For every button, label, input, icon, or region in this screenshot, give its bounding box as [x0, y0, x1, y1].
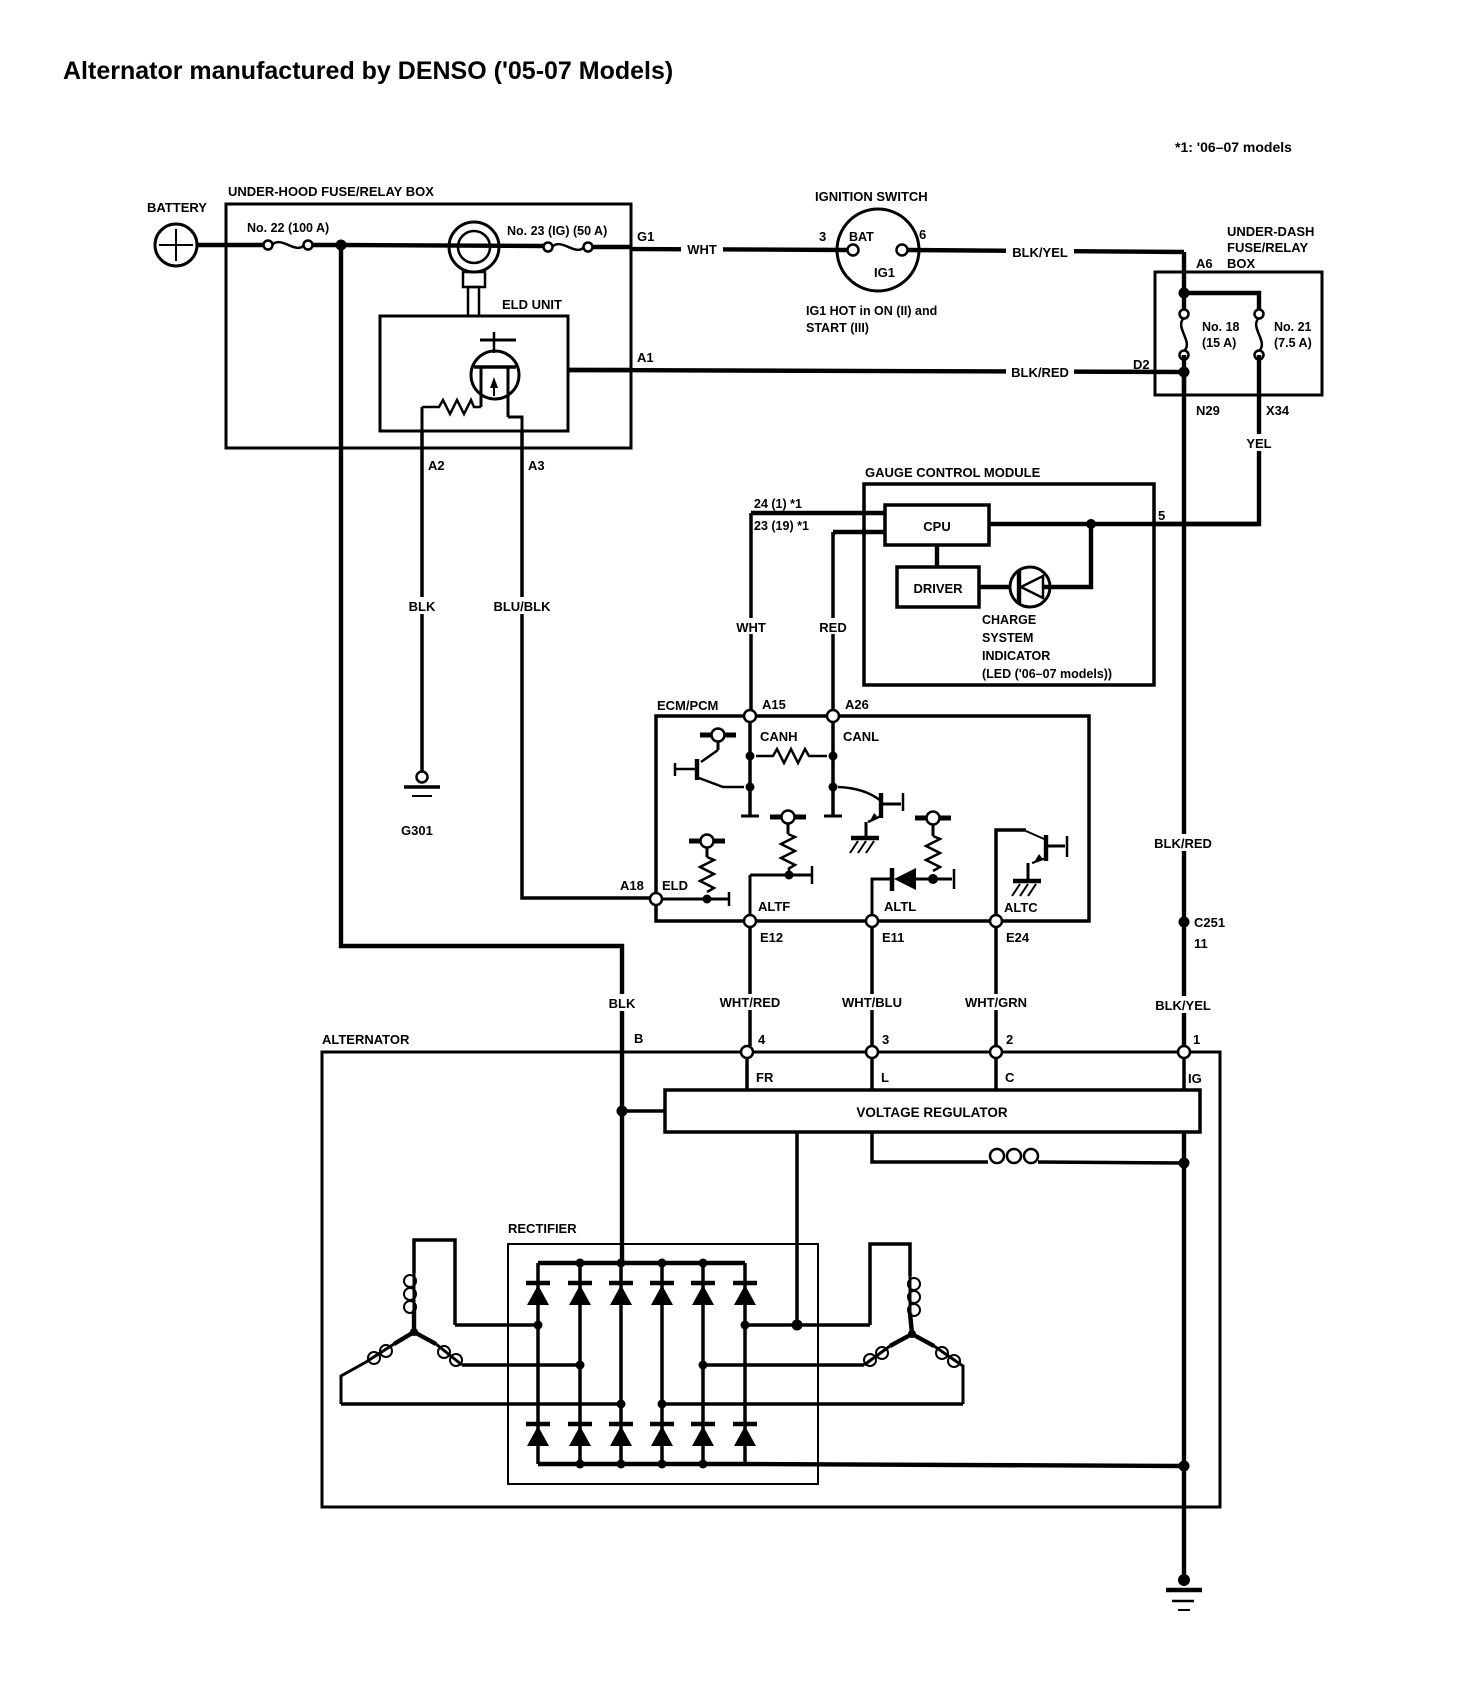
- svg-text:IG1: IG1: [874, 265, 895, 280]
- wire C to regulator: [994, 1058, 998, 1090]
- wire E24 to transistor Q3: [996, 830, 1026, 915]
- svg-text:A2: A2: [428, 458, 445, 473]
- junction dot A6 feed: [1179, 288, 1190, 299]
- junction row B col5: [699, 1361, 708, 1370]
- svg-text:G1: G1: [637, 229, 654, 244]
- wire fuse18 to D2 and down: [1182, 355, 1186, 395]
- junction CANH Q1 emitter: [746, 783, 755, 792]
- wire DRIVER to LED: [979, 585, 1010, 589]
- svg-text:5: 5: [1158, 508, 1165, 523]
- diode column 3: [609, 1263, 633, 1464]
- rectifier bottom bus: [538, 1462, 745, 1466]
- svg-text:ALTC: ALTC: [1004, 900, 1038, 915]
- svg-text:A3: A3: [528, 458, 545, 473]
- terminal E12: [744, 915, 756, 927]
- terminal E11: [866, 915, 878, 927]
- svg-text:E24: E24: [1006, 930, 1030, 945]
- diode column 2: [568, 1263, 592, 1464]
- alternator box: [322, 1052, 1220, 1507]
- svg-text:L: L: [881, 1070, 889, 1085]
- svg-text:WHT/RED: WHT/RED: [720, 995, 781, 1010]
- wire ELD input: [662, 898, 729, 901]
- svg-text:ELD: ELD: [662, 878, 688, 893]
- wire ALTF node: [750, 874, 812, 877]
- svg-text:BLK/YEL: BLK/YEL: [1155, 998, 1211, 1013]
- svg-text:SYSTEM: SYSTEM: [982, 631, 1033, 645]
- svg-text:(15 A): (15 A): [1202, 336, 1236, 350]
- junction CANL Q2 base: [829, 783, 838, 792]
- field coil L1: [990, 1149, 1184, 1163]
- junction dot ALTL: [928, 874, 938, 884]
- junction row C col4: [658, 1400, 667, 1409]
- wire BLK A2 to G301: [420, 431, 424, 772]
- svg-text:4: 4: [758, 1032, 766, 1047]
- phase row A right: [745, 1323, 870, 1327]
- svg-text:(LED ('06–07 models)): (LED ('06–07 models)): [982, 667, 1112, 681]
- junction row A col1: [534, 1321, 543, 1330]
- wire E11 to diode: [872, 879, 890, 915]
- battery symbol: [155, 224, 197, 266]
- junction bottom bus col3: [617, 1460, 626, 1469]
- svg-text:IG1 HOT in ON (II) and: IG1 HOT in ON (II) and: [806, 304, 937, 318]
- transistor Q3 ALTC: [1026, 831, 1067, 879]
- wire IG down from regulator: [1182, 1132, 1186, 1466]
- svg-text:Alternator manufactured by DEN: Alternator manufactured by DENSO ('05-07…: [63, 57, 673, 85]
- svg-text:A26: A26: [845, 697, 869, 712]
- svg-text:BATTERY: BATTERY: [147, 200, 207, 215]
- svg-text:No. 23 (IG) (50 A): No. 23 (IG) (50 A): [507, 224, 607, 238]
- ELD current sensor toroid: [449, 222, 499, 316]
- terminal 1: [1178, 1046, 1190, 1058]
- svg-text:YEL: YEL: [1246, 436, 1271, 451]
- ground Q3: [1012, 881, 1041, 896]
- diode column 5: [691, 1263, 715, 1464]
- junction bottom bus col2: [576, 1460, 585, 1469]
- svg-text:C: C: [1005, 1070, 1015, 1085]
- fuse No.21 (7.5 A): [1255, 310, 1264, 360]
- ignition switch: [837, 209, 919, 291]
- wire IG to regulator: [1182, 1058, 1186, 1090]
- junction dot LED branch: [1086, 519, 1096, 529]
- svg-text:1: 1: [1193, 1032, 1200, 1047]
- wire battery to fuse box: [197, 243, 264, 247]
- junction bottom bus col4: [658, 1460, 667, 1469]
- wire CPU pin 23(19): [833, 530, 885, 534]
- diode column 4: [650, 1263, 674, 1464]
- svg-text:FUSE/RELAY: FUSE/RELAY: [1227, 240, 1308, 255]
- wire down to under-dash box: [1182, 252, 1186, 316]
- resistor ALTL: [926, 836, 940, 871]
- wire CPU to DRIVER: [935, 545, 939, 567]
- resistor ALTF: [781, 834, 795, 869]
- svg-text:ALTL: ALTL: [884, 899, 916, 914]
- junction top bus col3 B wire: [617, 1259, 626, 1268]
- ELD unit box: [380, 316, 568, 431]
- junction row B col2: [576, 1361, 585, 1370]
- svg-text:N29: N29: [1196, 403, 1220, 418]
- phase row B right: [703, 1363, 864, 1367]
- wire YEL fuse21 to gauge pin 5: [1154, 355, 1259, 524]
- junction dot battery feed: [336, 240, 347, 251]
- svg-text:3: 3: [882, 1032, 889, 1047]
- wire WHT CPU to A15: [749, 513, 753, 712]
- supply stub ALTF: [770, 811, 806, 835]
- svg-text:3: 3: [819, 229, 826, 244]
- svg-text:RED: RED: [819, 620, 846, 635]
- diode ALTL D2: [892, 868, 954, 891]
- under-hood fuse/relay box: [226, 204, 631, 448]
- terminal 2: [990, 1046, 1002, 1058]
- svg-text:A1: A1: [637, 350, 654, 365]
- transistor Q1 CAN driver: [675, 729, 744, 788]
- wire BLK battery junction down-over to alternator B: [341, 245, 622, 1263]
- wire ALTF to E12: [749, 875, 752, 915]
- svg-text:RECTIFIER: RECTIFIER: [508, 1221, 577, 1236]
- svg-text:BLK/RED: BLK/RED: [1011, 365, 1069, 380]
- svg-text:(7.5 A): (7.5 A): [1274, 336, 1312, 350]
- wire WHT G1 to ignition switch: [631, 249, 848, 250]
- svg-text:BLK: BLK: [409, 599, 436, 614]
- svg-text:GAUGE CONTROL MODULE: GAUGE CONTROL MODULE: [865, 465, 1041, 480]
- svg-text:ELD UNIT: ELD UNIT: [502, 297, 562, 312]
- phase row C left: [341, 1402, 621, 1406]
- svg-text:WHT/BLU: WHT/BLU: [842, 995, 902, 1010]
- junction row A col6: [741, 1321, 750, 1330]
- wire CPU pin 24(1): [751, 511, 885, 515]
- phase row C right: [662, 1402, 963, 1406]
- wire FR to regulator: [745, 1058, 749, 1090]
- junction dot ALTF: [785, 871, 794, 880]
- phase row B left: [462, 1363, 580, 1367]
- wire ELD FET to A3: [508, 417, 522, 433]
- svg-text:WHT/GRN: WHT/GRN: [965, 995, 1027, 1010]
- svg-text:ALTF: ALTF: [758, 899, 790, 914]
- svg-text:ALTERNATOR: ALTERNATOR: [322, 1032, 410, 1047]
- wire B to regulator: [622, 1109, 665, 1113]
- rectifier top bus: [538, 1261, 745, 1265]
- junction top bus col5: [699, 1259, 708, 1268]
- CPU box U2: [885, 505, 989, 545]
- ground G301: [404, 772, 440, 797]
- svg-text:WHT: WHT: [687, 242, 717, 257]
- wire ELD resistor to A2: [421, 407, 424, 433]
- wire fuse22 to junction: [312, 243, 341, 247]
- wire bottom bus to IG ground run: [745, 1464, 1184, 1466]
- junction dot D2: [1179, 367, 1190, 378]
- fuse No.18 (15 A): [1180, 310, 1189, 360]
- fuse No.23 (IG)(50 A): [544, 243, 593, 252]
- svg-text:6: 6: [919, 227, 926, 242]
- rectifier box: [508, 1244, 818, 1484]
- junction bottom bus col5: [699, 1460, 708, 1469]
- junction CANL resistor: [829, 752, 838, 761]
- svg-text:B: B: [634, 1031, 643, 1046]
- wire L to regulator: [870, 1058, 874, 1090]
- wire regulator sense to rectifier bus A: [795, 1132, 799, 1325]
- left stator winding W1: [341, 1240, 462, 1404]
- chassis ground: [1166, 1574, 1202, 1610]
- wire WHT/RED E12 to alternator 4: [748, 927, 752, 1046]
- svg-text:ECM/PCM: ECM/PCM: [657, 698, 718, 713]
- svg-text:BAT: BAT: [849, 230, 874, 244]
- ECM/PCM box: [656, 716, 1089, 921]
- svg-text:A15: A15: [762, 697, 786, 712]
- svg-text:2: 2: [1006, 1032, 1013, 1047]
- terminal 3: [866, 1046, 878, 1058]
- diode column 6: [733, 1263, 757, 1464]
- svg-text:24 (1) *1: 24 (1) *1: [754, 497, 802, 511]
- terminal A26: [827, 710, 839, 722]
- wire regulator to field coil: [872, 1132, 988, 1162]
- transistor Q2 CAN driver: [838, 787, 903, 837]
- phase row A left: [455, 1323, 538, 1327]
- resistor ELD pull-up: [700, 857, 714, 892]
- wire WHT/BLU E11 to alternator 3: [870, 927, 874, 1046]
- svg-text:No. 18: No. 18: [1202, 320, 1240, 334]
- wire junction to fuse23 through ELD sensor: [341, 245, 544, 246]
- svg-text:E12: E12: [760, 930, 783, 945]
- svg-text:A18: A18: [620, 878, 644, 893]
- svg-text:23 (19) *1: 23 (19) *1: [754, 519, 809, 533]
- svg-text:BLU/BLK: BLU/BLK: [493, 599, 551, 614]
- connector C251 dot: [1179, 917, 1190, 928]
- wire BLK/YEL ignition to under-dash box: [908, 250, 1184, 252]
- svg-text:BLK/RED: BLK/RED: [1154, 836, 1212, 851]
- resistor ELD unit: [422, 400, 481, 414]
- wire fuse23 to G1: [592, 245, 631, 249]
- wire BLK/RED A1 to D2: [568, 370, 1184, 372]
- svg-text:IGNITION SWITCH: IGNITION SWITCH: [815, 189, 928, 204]
- svg-text:C251: C251: [1194, 915, 1225, 930]
- svg-text:VOLTAGE REGULATOR: VOLTAGE REGULATOR: [856, 1105, 1007, 1120]
- svg-text:A6: A6: [1196, 256, 1213, 271]
- wire branch to fuse No.21: [1184, 293, 1259, 314]
- svg-text:11: 11: [1194, 936, 1208, 951]
- svg-text:G301: G301: [401, 823, 433, 838]
- svg-text:FR: FR: [756, 1070, 774, 1085]
- svg-text:BLK/YEL: BLK/YEL: [1012, 245, 1068, 260]
- wire A1 from ELD box: [568, 368, 631, 372]
- LED charge system indicator D1: [1010, 567, 1050, 607]
- terminal 4: [741, 1046, 753, 1058]
- DRIVER box U3: [897, 567, 979, 607]
- wire CANH internal: [748, 722, 752, 816]
- wire CPU to pin 5: [989, 522, 1259, 526]
- junction row A regulator sense: [792, 1320, 803, 1331]
- voltage regulator box: [665, 1090, 1200, 1132]
- svg-text:INDICATOR: INDICATOR: [982, 649, 1050, 663]
- supply stub ALTL: [915, 812, 951, 837]
- fuse No.22 (100 A): [264, 241, 313, 250]
- terminal A15: [744, 710, 756, 722]
- wire WHT/GRN E24 to alternator 2: [994, 927, 998, 1046]
- svg-text:E11: E11: [882, 930, 904, 945]
- svg-text:*1: '06–07 models: *1: '06–07 models: [1175, 139, 1292, 155]
- junction dot ELD: [703, 895, 712, 904]
- svg-text:IG: IG: [1188, 1071, 1202, 1086]
- under-dash fuse/relay box: [1155, 272, 1322, 395]
- svg-text:No. 21: No. 21: [1274, 320, 1312, 334]
- supply stub ELD: [689, 835, 725, 858]
- svg-text:CHARGE: CHARGE: [982, 613, 1036, 627]
- junction dot field coil IG: [1179, 1158, 1190, 1169]
- terminal E24: [990, 915, 1002, 927]
- svg-text:CPU: CPU: [923, 519, 950, 534]
- junction row C col3: [617, 1400, 626, 1409]
- resistor CAN termination: [756, 749, 827, 763]
- junction top bus col2: [576, 1259, 585, 1268]
- svg-text:START (III): START (III): [806, 321, 869, 335]
- wire RED CPU to A26: [831, 532, 835, 712]
- wire CANL internal: [831, 722, 835, 816]
- svg-text:UNDER-HOOD FUSE/RELAY BOX: UNDER-HOOD FUSE/RELAY BOX: [228, 184, 434, 199]
- junction CANH resistor: [746, 752, 755, 761]
- gauge control module box: [864, 484, 1154, 685]
- diode column 1: [526, 1263, 550, 1464]
- svg-text:X34: X34: [1266, 403, 1290, 418]
- svg-text:WHT: WHT: [736, 620, 766, 635]
- svg-text:No. 22 (100 A): No. 22 (100 A): [247, 221, 329, 235]
- wire BLU/BLK A3 to A18: [522, 431, 650, 898]
- svg-text:BOX: BOX: [1227, 256, 1256, 271]
- terminal A18: [650, 893, 662, 905]
- svg-text:CANH: CANH: [760, 729, 798, 744]
- wire LED to junction: [1043, 524, 1091, 587]
- junction dot bottom bus to ground: [1179, 1461, 1190, 1472]
- svg-text:DRIVER: DRIVER: [913, 581, 963, 596]
- right stator winding W2: [864, 1244, 963, 1404]
- svg-text:UNDER-DASH: UNDER-DASH: [1227, 224, 1314, 239]
- junction top bus col4: [658, 1259, 667, 1268]
- ground Q2: [850, 838, 879, 853]
- svg-text:BLK: BLK: [609, 996, 636, 1011]
- ELD sensing FET U1: [471, 332, 519, 417]
- wire to chassis ground: [1182, 1466, 1186, 1578]
- svg-text:CANL: CANL: [843, 729, 879, 744]
- wire BLK/RED right main run: [1182, 372, 1186, 1046]
- junction dot B regulator: [617, 1106, 628, 1117]
